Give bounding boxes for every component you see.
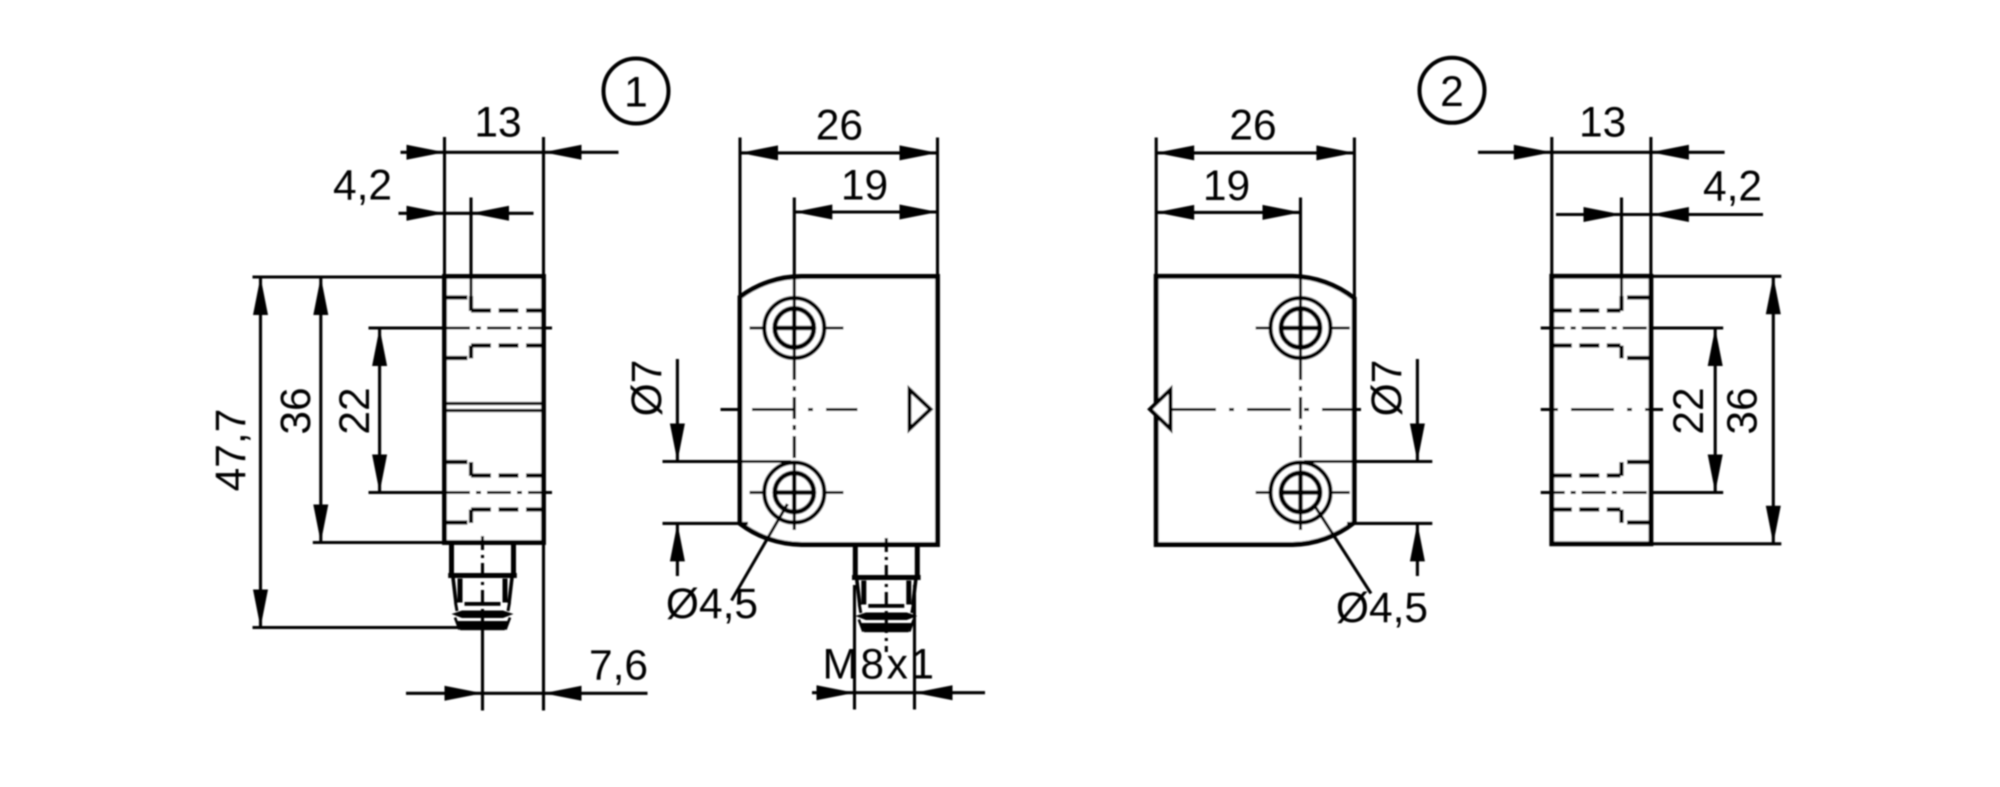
dimension 22 view2	[1666, 328, 1723, 493]
view2 front optical axis center line	[1173, 408, 1362, 411]
svg-text:36: 36	[273, 387, 320, 434]
view1 front connector center line	[885, 538, 888, 652]
svg-text:1: 1	[624, 70, 648, 117]
view1 front bottom mounting hole	[750, 463, 844, 523]
svg-text:2: 2	[1440, 69, 1464, 116]
view1 side bottom hole center line	[369, 491, 555, 494]
view2 side top hole center line	[1541, 326, 1724, 329]
view2 front body outline	[1156, 276, 1354, 544]
view2 front bottom mounting hole	[1256, 463, 1350, 523]
view2 side top hole hidden counterbore lines	[1552, 296, 1649, 359]
view1 front optical axis center line	[721, 408, 858, 411]
label diameter-4,5 view1 with leader	[666, 504, 788, 628]
svg-text:7,6: 7,6	[589, 643, 648, 690]
dimension 26 view1	[740, 103, 938, 296]
svg-text:M8x1: M8x1	[823, 642, 937, 689]
svg-text:Ø7: Ø7	[624, 360, 671, 417]
view2 side bottom hole hidden counterbore lines	[1552, 462, 1649, 523]
view1 front optical axis triangle marker	[910, 390, 931, 430]
dimension 7,6 view1	[406, 543, 648, 711]
svg-text:13: 13	[474, 100, 521, 147]
dimension 13 view2	[1478, 100, 1725, 277]
svg-text:4,2: 4,2	[1703, 164, 1762, 211]
view1 front M8 connector	[852, 545, 921, 633]
dimension 22 view1	[332, 328, 387, 493]
dimension 26 view2	[1156, 103, 1354, 297]
svg-text:13: 13	[1579, 100, 1626, 147]
svg-text:Ø7: Ø7	[1364, 360, 1411, 417]
view2 side body outline	[1552, 276, 1651, 544]
view2 front optical axis triangle marker	[1150, 390, 1171, 430]
dimension 19 view2	[1156, 163, 1300, 220]
view1 side top hole center line	[369, 326, 555, 329]
view2 front top mounting hole	[1256, 298, 1350, 358]
svg-text:26: 26	[816, 103, 863, 150]
dimension diameter-7 view1	[624, 359, 791, 576]
view2 side optical axis center line	[1541, 408, 1663, 411]
view1 side connector center line	[481, 536, 484, 628]
svg-text:47,7: 47,7	[208, 409, 255, 492]
svg-text:19: 19	[1203, 163, 1250, 210]
label diameter-4,5 view2 with leader	[1314, 504, 1429, 632]
dimension 36 view2	[1651, 276, 1781, 544]
dimension 19 view1	[794, 163, 937, 220]
dimension 4,2 view1	[333, 163, 534, 298]
svg-text:Ø4,5: Ø4,5	[666, 581, 758, 628]
svg-text:4,2: 4,2	[333, 163, 392, 210]
svg-text:22: 22	[332, 387, 379, 434]
view1 side housing split line upper	[446, 402, 542, 405]
svg-text:36: 36	[1719, 387, 1766, 434]
dimension M8x1 view1	[812, 585, 985, 710]
view1 side M8 connector	[448, 543, 517, 631]
view1 front body outline	[740, 277, 938, 545]
dimension 4,2 view2	[1556, 164, 1763, 298]
view1 side bottom hole hidden counterbore lines	[447, 462, 544, 523]
dimension diameter-7 view2	[1304, 359, 1432, 576]
view1 side body outline	[445, 277, 544, 543]
view-2 marker circle 2	[1420, 58, 1485, 123]
dimension 36 view1	[273, 277, 445, 543]
view1 side top hole hidden counterbore lines	[447, 296, 544, 359]
view1 front vertical hole center line	[793, 198, 796, 531]
svg-text:Ø4,5: Ø4,5	[1336, 585, 1428, 632]
view2 front vertical hole center line	[1299, 198, 1302, 531]
svg-text:22: 22	[1666, 387, 1713, 434]
svg-text:19: 19	[841, 163, 888, 210]
dimension 47,7 view1	[208, 277, 461, 628]
view-1 marker circle 1	[604, 59, 669, 124]
svg-text:26: 26	[1229, 103, 1276, 150]
dimension 13 view1	[401, 100, 619, 277]
view1 side housing split line lower	[446, 409, 542, 412]
view2 side bottom hole center line	[1541, 491, 1724, 494]
view1 front top mounting hole	[750, 298, 844, 358]
